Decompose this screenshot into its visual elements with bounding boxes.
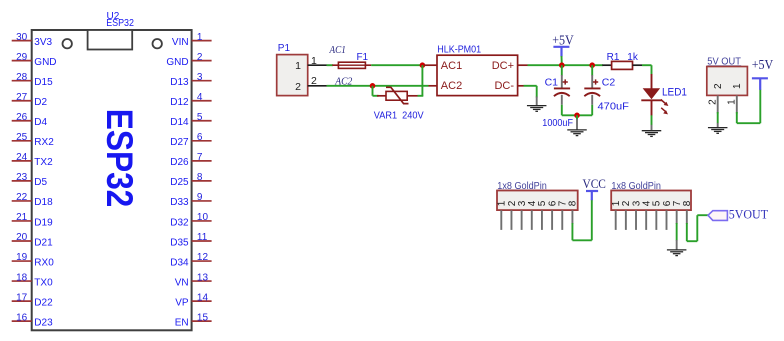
connector P1 body [277,55,308,96]
svg-text:10: 10 [197,212,209,223]
svg-text:22: 22 [16,192,28,203]
U2 pin 17 (D22) [12,292,53,308]
U2 pin 27 (D2) [12,92,48,108]
svg-text:30: 30 [16,32,28,43]
wire 5V OUT pin 2 to ground [717,112,719,123]
power symbol VCC [583,177,606,200]
U2 pin 6 (D27) [170,132,211,148]
svg-text:AC1: AC1 [329,45,346,56]
wire R1 to LED1 [642,65,652,74]
wire +5V to rail [561,56,563,65]
wire rail down to C2 [591,65,593,75]
U2 pin 13 (VN) [175,272,212,288]
svg-text:3: 3 [197,72,203,83]
svg-text:2: 2 [311,75,317,87]
U2 pin 18 (TX0) [12,272,53,288]
svg-text:8: 8 [197,172,203,183]
svg-text:D33: D33 [170,197,189,208]
U2 pin 23 (D5) [12,172,48,188]
svg-text:6: 6 [197,132,203,143]
svg-text:13: 13 [197,272,209,283]
junction ground rail [574,113,580,119]
left header pin 6 [547,200,558,230]
U2 pin 25 (RX2) [12,132,54,148]
left header pin 1 [497,200,508,230]
svg-text:25: 25 [16,132,28,143]
5V OUT pin 1 [727,83,743,114]
resistor R1 [602,61,642,69]
svg-text:VCC: VCC [583,177,606,191]
svg-text:D25: D25 [170,177,189,188]
svg-text:LED1: LED1 [662,87,687,99]
svg-text:D21: D21 [34,237,53,248]
right header pin 1 [611,200,622,230]
svg-text:TX0: TX0 [34,277,53,288]
wire varistor to AC1 vertical [418,95,424,97]
P1 pin 2 [295,75,327,93]
IC U2 ESP32 module body [32,30,192,330]
varistor VAR1 [377,87,418,103]
svg-text:23: 23 [16,172,28,183]
U2 pin 12 (D34) [170,252,211,268]
U2 pin 2 (GND) [166,52,211,68]
svg-text:D2: D2 [34,97,47,108]
svg-text:AC1: AC1 [441,60,462,72]
svg-text:2: 2 [197,52,203,63]
LED LED1 [641,74,668,116]
svg-text:14: 14 [197,292,209,303]
U2 pin 20 (D21) [12,232,53,248]
svg-text:+5V: +5V [752,57,774,72]
U2 pin 8 (D25) [170,172,211,188]
left header pin 5 [537,200,548,230]
U2 pin 4 (D12) [170,92,211,108]
svg-text:DC-: DC- [494,80,514,92]
svg-text:7: 7 [197,152,203,163]
wire DC- to ground [524,86,537,98]
svg-text:D26: D26 [170,157,189,168]
svg-text:D27: D27 [170,137,189,148]
wire junction AC2 down to varistor [373,86,379,96]
right header pin 8 [682,200,693,224]
left header pin 4 [527,200,538,230]
left header pin 8 [568,200,579,224]
1x8 GoldPin label (right header) [611,181,661,192]
U2 top notch [88,30,133,50]
U2 pin 30 (3V3) [12,32,53,48]
5V OUT pin 2 [707,83,724,114]
junction AC1 / varistor [420,62,426,68]
1x8 GoldPin label (left header) [497,181,547,192]
svg-text:D35: D35 [170,237,189,248]
junction rail at C1 [559,62,565,68]
svg-text:1: 1 [197,32,203,43]
wire right header pin 7 to ground [676,223,678,241]
wire fuse to HLK AC1 [371,64,424,66]
svg-text:1: 1 [727,99,738,105]
svg-text:VIN: VIN [172,37,189,48]
svg-text:2: 2 [707,99,718,105]
power symbol +5V (rail) [552,33,574,57]
power module HLK-PM01 [424,55,528,95]
svg-text:ESP32: ESP32 [98,109,139,208]
svg-text:1: 1 [732,83,743,89]
svg-text:AC2: AC2 [441,80,462,92]
connector 5V OUT body [707,67,748,96]
svg-text:D4: D4 [34,117,47,128]
net flag 5VOUT [708,208,768,222]
U2 pin 9 (D33) [170,192,211,208]
U2 pin 14 (VP) [175,292,211,308]
svg-text:P1: P1 [278,43,291,54]
svg-text:D19: D19 [34,217,53,228]
svg-text:D18: D18 [34,197,53,208]
svg-text:1: 1 [311,55,317,67]
wire C2 to ground rail [591,105,593,116]
U2 pin 1 (VIN) [172,32,212,48]
5V OUT label [707,57,741,68]
U2 pin 22 (D18) [12,192,53,208]
svg-text:17: 17 [16,292,28,303]
svg-text:+5V: +5V [552,33,574,48]
svg-text:470uF: 470uF [598,101,629,113]
ground below 5V OUT [708,123,728,133]
ground below LED1 [642,125,662,137]
svg-text:AC2: AC2 [334,76,352,87]
svg-text:GND: GND [166,57,188,68]
P1 pin 1 [295,55,327,72]
connector J2 1x8 GoldPin body (right) [611,191,691,211]
left header pin 7 [558,200,569,230]
svg-text:VP: VP [175,297,189,308]
U2 pin 15 (EN) [175,312,212,328]
svg-text:1000uF: 1000uF [542,118,573,129]
svg-text:19: 19 [16,252,28,263]
svg-text:D32: D32 [170,217,189,228]
svg-text:5: 5 [197,112,203,123]
svg-text:16: 16 [16,312,28,323]
svg-text:D15: D15 [34,77,53,88]
svg-text:D22: D22 [34,297,53,308]
left header pin 3 [517,200,528,230]
U2 pin 24 (TX2) [12,152,53,168]
U2 pin 16 (D23) [12,312,53,328]
svg-text:D23: D23 [34,317,53,328]
right header pin 3 [631,200,642,230]
right header pin 5 [652,200,663,230]
U2 left mounting hole [62,39,71,48]
fuse F1 [332,62,371,68]
U2 pin 3 (D13) [170,72,211,88]
ground below C1 C2 [567,119,587,136]
connector J1 1x8 GoldPin body (left) [497,191,578,211]
svg-text:D5: D5 [34,177,47,188]
svg-text:8: 8 [682,200,693,206]
right header pin 4 [641,200,652,230]
svg-text:C2: C2 [602,77,616,89]
svg-text:3V3: 3V3 [34,37,52,48]
svg-text:D14: D14 [170,117,189,128]
svg-text:HLK-PM01: HLK-PM01 [437,45,481,56]
svg-text:DC+: DC+ [492,60,514,72]
svg-text:29: 29 [16,52,28,63]
svg-text:TX2: TX2 [34,157,53,168]
left header pin 2 [507,200,518,230]
wire junction down to ground [576,115,578,119]
right header pin 6 [662,200,673,230]
svg-text:12: 12 [197,252,209,263]
U2 pin 29 (GND) [12,52,57,68]
svg-text:ESP32: ESP32 [106,18,134,29]
U2 pin 11 (D35) [170,232,211,248]
svg-text:RX2: RX2 [34,137,54,148]
svg-text:8: 8 [568,200,579,206]
svg-text:15: 15 [197,312,209,323]
wire P1 pin1 to fuse F1 [327,64,333,66]
svg-text:R1: R1 [607,52,620,63]
U2 pin 10 (D32) [170,212,211,228]
junction AC2 / varistor [370,83,376,89]
svg-text:20: 20 [16,232,28,243]
svg-text:D12: D12 [170,97,189,108]
svg-text:EN: EN [175,317,189,328]
svg-text:21: 21 [16,212,28,223]
svg-text:F1: F1 [356,52,368,63]
svg-text:11: 11 [197,232,208,243]
U2 pin 19 (RX0) [12,252,54,268]
svg-text:27: 27 [16,92,28,103]
svg-text:4: 4 [197,92,203,103]
svg-text:VN: VN [175,277,189,288]
svg-text:GND: GND [34,57,56,68]
junction rail at C2 [589,62,595,68]
U2 pin 5 (D14) [170,112,211,128]
U2 pin 21 (D19) [12,212,53,228]
wire P1 pin2 to HLK AC2 [327,85,429,87]
capacitor C1 [554,75,570,105]
wire junction AC1 down to varistor [421,65,423,96]
power symbol +5V (output) [752,57,774,90]
svg-text:D13: D13 [170,77,189,88]
svg-text:26: 26 [16,112,28,123]
svg-text:C1: C1 [545,77,559,89]
svg-text:5VOUT: 5VOUT [729,208,769,222]
svg-text:D34: D34 [170,257,189,268]
wire DC+ rail to R1 [528,64,604,66]
right header pin 7 [672,200,683,224]
svg-text:24: 24 [16,152,28,163]
U2 pin 28 (D15) [12,72,53,88]
right header pin 2 [621,200,632,230]
ground below right header pin 7 [667,240,687,256]
wire left header pin 8 to VCC [572,200,591,241]
U2 right mounting hole [153,39,162,48]
svg-text:1: 1 [295,60,301,72]
svg-text:RX0: RX0 [34,257,54,268]
svg-text:18: 18 [16,272,28,283]
svg-text:2: 2 [295,81,301,93]
wire LED1 cathode to ground [651,115,653,125]
svg-text:9: 9 [197,192,203,203]
wire rail down to C1 [561,65,563,75]
wire C1 to ground rail [562,105,592,116]
capacitor C2 [584,75,600,105]
svg-text:2: 2 [713,83,724,89]
wire right header pin 8 to 5VOUT flag [687,215,709,241]
U2 pin 26 (D4) [12,112,48,128]
U2 pin 7 (D26) [170,152,211,168]
svg-text:1k: 1k [627,52,639,63]
ground at HLK DC- [527,97,547,112]
svg-text:28: 28 [16,72,28,83]
svg-text:VAR1 240V: VAR1 240V [374,111,424,122]
wire 5V OUT pin 1 to +5V [737,90,761,124]
